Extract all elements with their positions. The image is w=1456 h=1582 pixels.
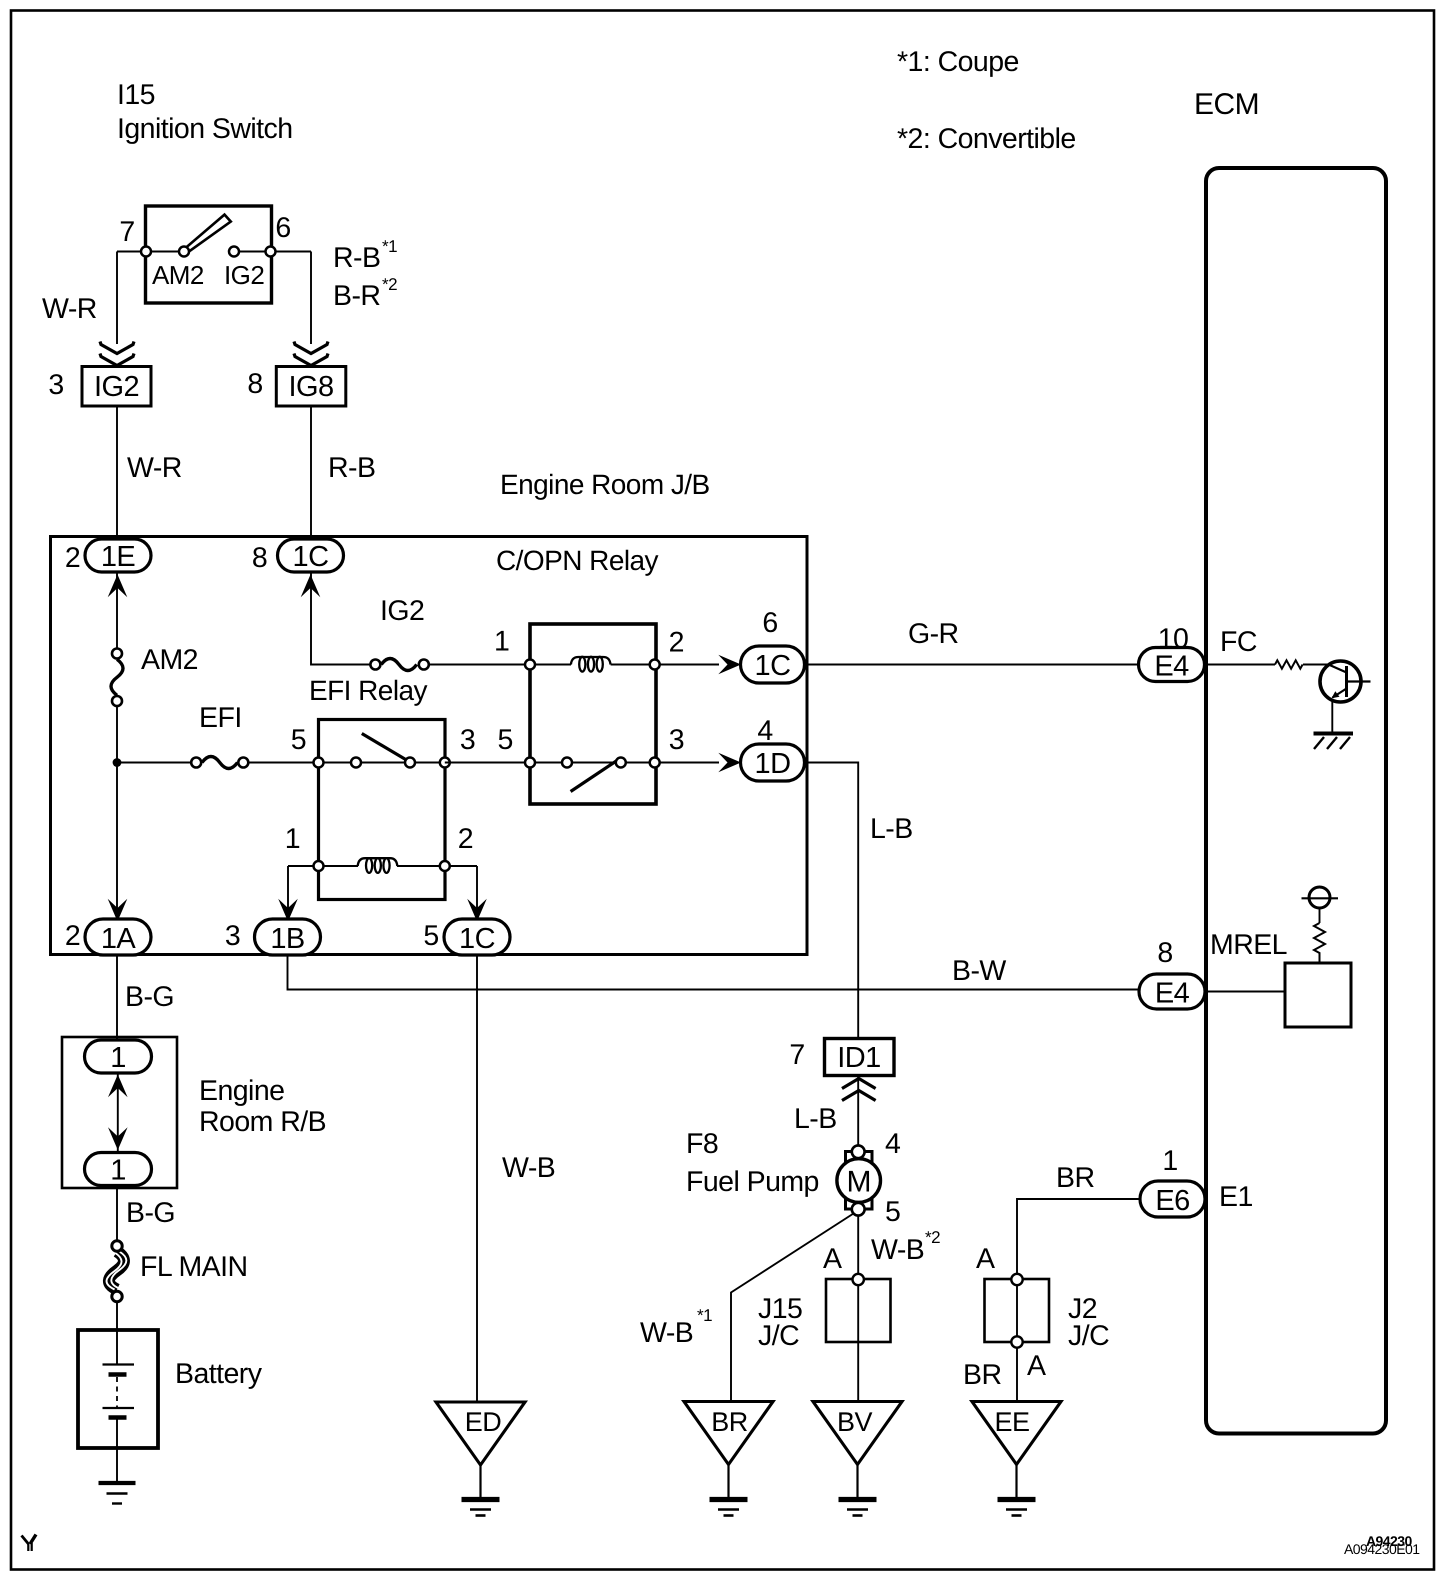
- C/OPN switch blade: [571, 761, 617, 792]
- svg-text:Ignition Switch: Ignition Switch: [117, 113, 293, 145]
- svg-text:1: 1: [494, 626, 509, 658]
- connector arrow into 1C: [718, 655, 741, 675]
- battery ground symbol: [99, 1481, 136, 1485]
- svg-text:6: 6: [275, 212, 290, 244]
- connector IG8 box: [276, 367, 346, 407]
- svg-text:W-R: W-R: [42, 293, 97, 325]
- connector arrow above 1C bottom: [467, 899, 487, 922]
- svg-text:I15: I15: [117, 79, 155, 111]
- svg-text:1: 1: [110, 1042, 126, 1074]
- connector oval 1D: [741, 744, 805, 781]
- connector chevrons below ID1: [842, 1079, 876, 1089]
- svg-text:Room R/B: Room R/B: [199, 1106, 326, 1138]
- svg-text:L-B: L-B: [794, 1103, 837, 1135]
- svg-text:Engine: Engine: [199, 1075, 284, 1107]
- connector oval 1E: [85, 539, 151, 572]
- wire W-B*1 diagonal from pump to BR ground: [731, 1214, 854, 1403]
- ECM box: [1206, 168, 1386, 1434]
- connector IG2 box: [82, 367, 151, 407]
- EFI relay switch blade: [362, 734, 407, 761]
- svg-text:G-R: G-R: [908, 618, 959, 650]
- printing mark bottom left: [22, 1536, 29, 1545]
- svg-text:4: 4: [885, 1128, 901, 1160]
- wire terminal7 to AM2 contact and left exit: [117, 251, 184, 253]
- wire resistor to B+ terminal: [1319, 908, 1321, 923]
- svg-text:EE: EE: [995, 1407, 1030, 1437]
- connector arrow below 1C: [301, 575, 321, 598]
- R/B wire between connectors: [117, 1073, 119, 1153]
- svg-text:ID1: ID1: [837, 1042, 880, 1074]
- svg-text:Engine Room J/B: Engine Room J/B: [500, 469, 710, 500]
- svg-text:FC: FC: [1220, 626, 1257, 658]
- wire FL MAIN to battery: [116, 1302, 118, 1330]
- wire W-R down from pin7: [116, 252, 118, 345]
- svg-text:8: 8: [247, 368, 262, 400]
- svg-text:2: 2: [65, 920, 80, 952]
- B+ terminal circle: [1309, 887, 1330, 908]
- fuel pump motor M: [846, 1152, 873, 1210]
- svg-text:4: 4: [757, 715, 773, 747]
- J2 J/C box: [985, 1279, 1050, 1342]
- resistor at FC: [1275, 660, 1303, 668]
- svg-text:E4: E4: [1154, 651, 1189, 683]
- svg-text:AM2: AM2: [141, 644, 198, 676]
- wire FC to resistor: [1205, 664, 1276, 666]
- fuse AM2: [111, 659, 123, 695]
- svg-text:ECM: ECM: [1194, 88, 1259, 121]
- connector arrow above 1B: [278, 899, 298, 922]
- svg-text:*1: *1: [697, 1306, 712, 1325]
- svg-text:R-B: R-B: [328, 452, 375, 484]
- fuel pump terminal 4: [852, 1145, 865, 1158]
- battery ground wire: [116, 1448, 118, 1483]
- svg-text:1: 1: [285, 823, 300, 855]
- ground triangle EE: [972, 1402, 1061, 1465]
- transistor Q (FC driver): [1320, 661, 1361, 702]
- battery box: [78, 1330, 158, 1448]
- svg-text:B-G: B-G: [126, 1197, 175, 1229]
- svg-text:1C: 1C: [459, 923, 495, 955]
- svg-text:7: 7: [789, 1039, 804, 1071]
- svg-text:3: 3: [460, 724, 475, 756]
- C/OPN coil terminal circles: [525, 660, 535, 670]
- svg-text:W-B: W-B: [640, 1317, 693, 1349]
- svg-text:10: 10: [1158, 623, 1189, 655]
- fuel pump terminal 5: [852, 1203, 865, 1216]
- MREL pull-up resistor: [1314, 923, 1325, 963]
- svg-text:W-B: W-B: [502, 1152, 555, 1184]
- svg-text:2: 2: [458, 823, 473, 855]
- J2 top terminal circle: [1011, 1274, 1022, 1285]
- wire C/OPN pin2 to 1C oval: [661, 664, 720, 666]
- svg-text:EFI: EFI: [199, 702, 242, 734]
- svg-text:FL MAIN: FL MAIN: [140, 1251, 248, 1283]
- wire junction to EFI fuse: [117, 762, 190, 764]
- wire W-R from IG2 to J/B 1E: [116, 406, 118, 540]
- svg-text:Battery: Battery: [175, 1358, 263, 1390]
- svg-text:B-G: B-G: [125, 981, 174, 1013]
- svg-text:8: 8: [1157, 937, 1172, 969]
- svg-text:IG2: IG2: [380, 595, 424, 627]
- svg-text:5: 5: [498, 724, 513, 756]
- svg-text:5: 5: [291, 724, 306, 756]
- svg-text:E4: E4: [1155, 978, 1190, 1010]
- EFI relay box: [319, 720, 446, 900]
- transistor emitter wire: [1331, 700, 1333, 732]
- wire down to 1A with arrow: [108, 899, 128, 922]
- svg-text:R-B: R-B: [333, 242, 380, 274]
- connector oval 1A: [85, 919, 151, 955]
- C/OPN relay coil: [571, 657, 611, 665]
- wire B-G from 1A to Engine Room R/B: [116, 955, 118, 1040]
- svg-text:*2: *2: [925, 1228, 940, 1247]
- svg-text:*1: Coupe: *1: Coupe: [897, 46, 1019, 78]
- svg-text:1E: 1E: [101, 541, 136, 573]
- svg-text:F8: F8: [686, 1128, 718, 1160]
- svg-text:C/OPN Relay: C/OPN Relay: [496, 545, 659, 576]
- EFI relay coil terminal circles: [314, 861, 324, 871]
- C/OPN switch row wire: [445, 762, 655, 764]
- svg-text:A: A: [976, 1243, 995, 1275]
- svg-text:J/C: J/C: [1068, 1320, 1109, 1352]
- wire L-B from 1D right then down to ID1: [805, 763, 859, 1040]
- wire AM2 fuse to 1A with junction: [116, 707, 118, 920]
- svg-text:W-R: W-R: [127, 452, 182, 484]
- svg-text:W-B: W-B: [871, 1234, 924, 1266]
- ground triangle ED: [436, 1402, 525, 1465]
- svg-text:J/C: J/C: [758, 1320, 799, 1352]
- svg-text:BR: BR: [1056, 1162, 1095, 1194]
- wire resistor to transistor base: [1303, 664, 1329, 666]
- svg-text:1B: 1B: [270, 923, 304, 955]
- wire coil pin2 down to 1C: [476, 866, 478, 920]
- connector arrow up in R/B: [108, 1075, 128, 1098]
- connector oval 1C bottom: [444, 919, 510, 955]
- svg-text:2: 2: [65, 542, 80, 574]
- EFI relay switch row wire: [319, 762, 531, 764]
- svg-text:IG2: IG2: [94, 371, 139, 403]
- wire EFI fuse to EFI relay pin5: [249, 762, 318, 764]
- svg-text:EFI Relay: EFI Relay: [309, 675, 428, 706]
- connector arrow into 1D: [718, 753, 741, 773]
- Engine Room R/B box: [62, 1037, 177, 1188]
- svg-text:E6: E6: [1155, 1185, 1189, 1217]
- ground triangle BR: [684, 1402, 773, 1465]
- svg-text:8: 8: [252, 542, 267, 574]
- J15 junction terminal circle: [853, 1274, 864, 1285]
- ground triangle BV: [813, 1402, 902, 1465]
- wire IG2 fuse to C/OPN relay pin1: [430, 664, 530, 666]
- chassis ground under transistor: [1314, 732, 1354, 736]
- connector arrow down in R/B: [108, 1127, 128, 1150]
- svg-text:*2: *2: [382, 275, 397, 294]
- ignition switch I15 box: [146, 206, 272, 303]
- connector oval 1 top in R/B: [85, 1040, 152, 1073]
- ID1 connector box: [825, 1039, 895, 1076]
- svg-text:M: M: [846, 1166, 870, 1199]
- svg-text:1D: 1D: [755, 748, 791, 780]
- svg-text:A: A: [823, 1243, 842, 1275]
- svg-text:BR: BR: [711, 1407, 747, 1437]
- svg-text:1: 1: [1162, 1145, 1177, 1177]
- switch lever: [186, 215, 231, 253]
- wire E4 pin8 to MREL box: [1205, 991, 1286, 993]
- svg-text:AM2: AM2: [152, 260, 204, 290]
- connector oval 1C right: [741, 646, 805, 683]
- wire inside J/B from 1E down to AM2 fuse: [116, 572, 118, 648]
- svg-text:6: 6: [762, 607, 777, 639]
- connector oval E4 pin8: [1139, 974, 1205, 1009]
- battery internal cells: [116, 1330, 118, 1364]
- svg-text:1C: 1C: [755, 650, 791, 682]
- wire R-B down from pin6: [310, 252, 312, 345]
- svg-text:5: 5: [885, 1196, 900, 1228]
- svg-text:B-R: B-R: [333, 280, 380, 312]
- C/OPN coil row wires: [530, 664, 571, 666]
- wire from 1C down then right to IG2 fuse: [311, 572, 370, 665]
- svg-text:2: 2: [669, 627, 684, 659]
- EFI relay coil row wires: [288, 865, 358, 867]
- C/OPN switch terminal circles: [525, 758, 535, 768]
- connector oval 1B: [255, 919, 321, 955]
- connector chevrons above IG2: [100, 342, 134, 354]
- svg-text:BR: BR: [963, 1359, 1002, 1391]
- switch contact circles: [141, 247, 151, 257]
- svg-text:A094230E01: A094230E01: [1344, 1541, 1420, 1557]
- MREL circuit box: [1285, 963, 1351, 1027]
- svg-text:E1: E1: [1219, 1181, 1253, 1213]
- Engine Room J/B box: [51, 537, 808, 955]
- svg-text:*1: *1: [382, 237, 397, 256]
- svg-text:3: 3: [48, 369, 63, 401]
- connector oval 1C top: [278, 539, 344, 572]
- svg-text:B-W: B-W: [952, 955, 1006, 987]
- wire IG2 contact to terminal6 and right exit: [234, 251, 311, 253]
- connector arrow below 1E: [108, 575, 128, 598]
- wire B-W from 1B down and right to E4: [288, 955, 1140, 990]
- wire W-B from 1C bottom down to ED ground: [476, 955, 478, 1402]
- svg-text:BV: BV: [837, 1407, 872, 1437]
- J2 bottom terminal circle: [1011, 1336, 1022, 1347]
- fuse EFI: [202, 757, 238, 769]
- svg-text:1: 1: [110, 1155, 126, 1187]
- svg-text:ED: ED: [465, 1407, 501, 1437]
- svg-text:Fuel Pump: Fuel Pump: [686, 1166, 819, 1198]
- svg-text:IG2: IG2: [224, 260, 264, 290]
- wire ID1 to fuel pump: [857, 1076, 859, 1151]
- C/OPN relay box: [530, 624, 656, 804]
- fuse IG2: [381, 659, 417, 671]
- EFI relay terminal circles: [314, 758, 324, 768]
- wire coil pin1 down to 1B: [287, 866, 289, 920]
- J15 J/C box: [826, 1279, 891, 1342]
- svg-text:A: A: [1027, 1350, 1046, 1382]
- svg-text:3: 3: [669, 724, 684, 756]
- svg-text:5: 5: [423, 920, 438, 952]
- svg-text:IG8: IG8: [288, 371, 333, 403]
- svg-text:1A: 1A: [101, 923, 137, 955]
- connector oval 1 bottom in R/B: [85, 1153, 152, 1186]
- svg-text:MREL: MREL: [1210, 929, 1287, 961]
- connector oval E4 pin10: [1139, 648, 1205, 682]
- svg-text:3: 3: [225, 920, 240, 952]
- svg-text:*2: Convertible: *2: Convertible: [897, 123, 1076, 155]
- wire BR from J2 up and right to E6: [1017, 1199, 1140, 1280]
- svg-text:L-B: L-B: [870, 813, 913, 845]
- EFI relay coil: [358, 858, 398, 866]
- svg-text:7: 7: [119, 216, 134, 248]
- wire R-B from IG8 to J/B 1C: [310, 406, 312, 540]
- junction node dot: [113, 758, 122, 767]
- wire B-G from R/B to FL MAIN: [116, 1186, 118, 1242]
- wire G-R from 1C to E4 pin10: [805, 664, 1140, 666]
- fusible link FL MAIN: [109, 1252, 124, 1290]
- connector chevrons above IG8: [294, 342, 328, 354]
- wire through J2 down to EE: [1016, 1280, 1018, 1402]
- wire C/OPN pin3 to 1D oval: [661, 762, 720, 764]
- wire W-B*2 from pump down through J15: [857, 1216, 859, 1403]
- connector oval E6: [1140, 1181, 1205, 1217]
- svg-text:1C: 1C: [293, 541, 329, 573]
